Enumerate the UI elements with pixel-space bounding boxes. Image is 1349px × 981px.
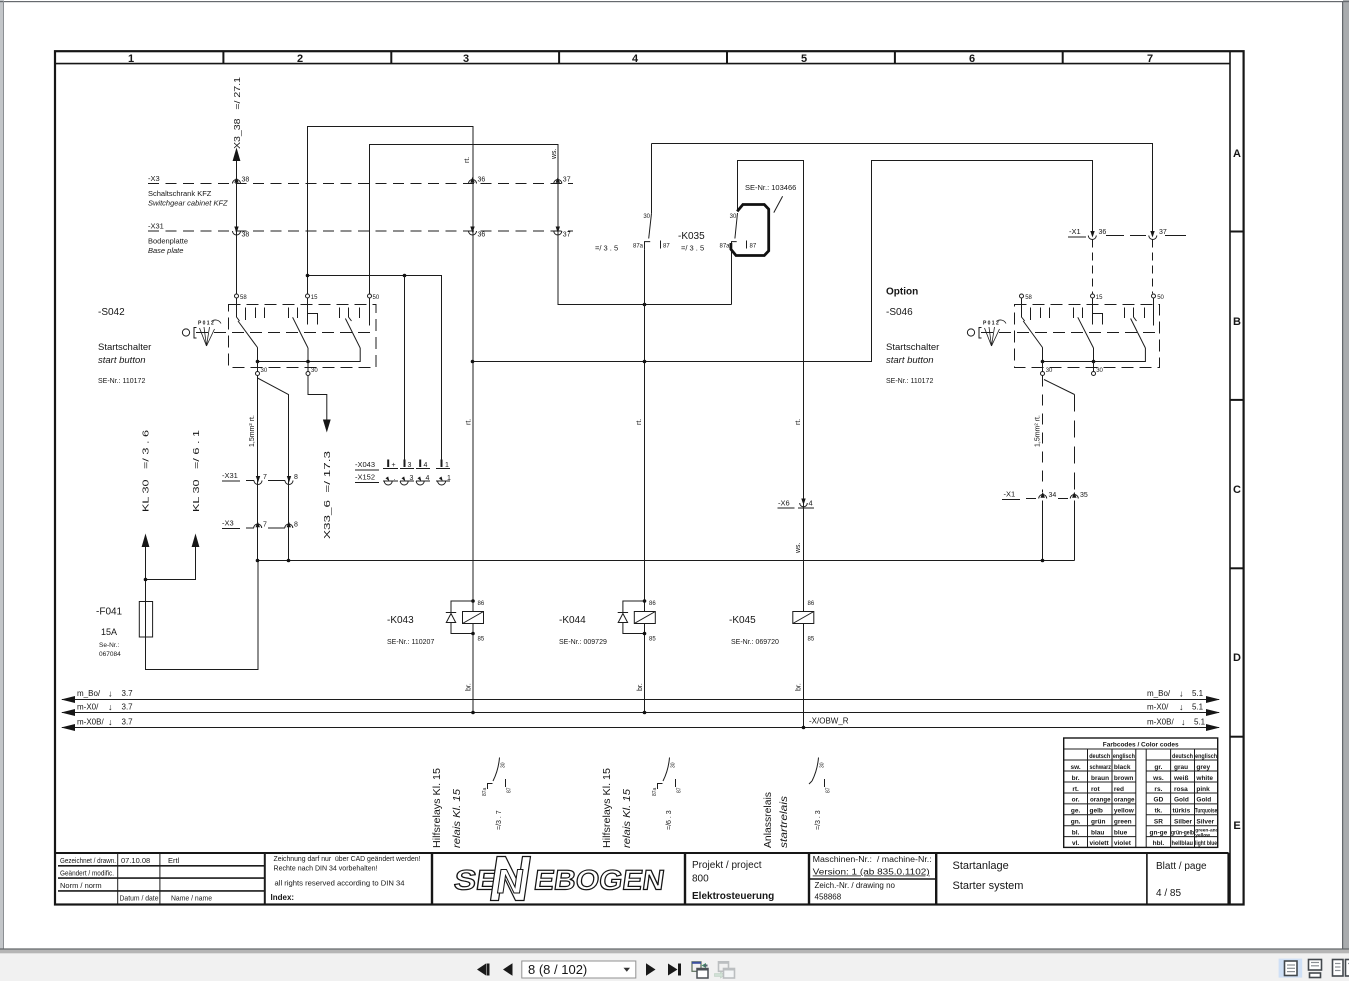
svg-text:↓: ↓ <box>108 689 113 699</box>
wire K045 to bus <box>803 599 805 612</box>
svg-text:7: 7 <box>263 522 267 529</box>
view facing button <box>1333 960 1349 977</box>
wire -X3:37 to -X31:37 <box>557 184 559 232</box>
svg-text:brown: brown <box>1114 775 1134 782</box>
svg-text:ws.: ws. <box>551 148 558 160</box>
terminal strip -X31 lower <box>222 471 298 485</box>
svg-text:↓: ↓ <box>1181 717 1186 727</box>
svg-text:Silver: Silver <box>1196 819 1214 826</box>
svg-text:Norm / norm: Norm / norm <box>60 881 102 890</box>
svg-text:br.: br. <box>796 683 803 691</box>
viewer gray strip below page <box>0 950 1349 954</box>
svg-text:start button: start button <box>886 355 934 366</box>
svg-text:C: C <box>1233 484 1241 496</box>
svg-text:Index:: Index: <box>271 893 295 902</box>
S042 output 30b <box>306 362 318 376</box>
svg-text:Option: Option <box>886 287 918 298</box>
svg-text:Ertl: Ertl <box>168 856 180 865</box>
svg-text:SE-Nr.: 110172: SE-Nr.: 110172 <box>98 378 145 385</box>
starter relay contact 3.3 <box>809 758 832 831</box>
S046 terminal 50 <box>1152 294 1165 301</box>
junction K035 rail / K044 <box>643 303 647 307</box>
wire F041 to start rail <box>146 561 259 670</box>
row tick C|D <box>1230 567 1244 569</box>
terminal strip -X043 <box>355 460 450 471</box>
svg-text:m-X0B/: m-X0B/ <box>1147 718 1174 727</box>
wire -X1:34 to start rail <box>1042 501 1044 561</box>
svg-text:87a: 87a <box>482 787 488 796</box>
svg-text:SE-Nr.: 103466: SE-Nr.: 103466 <box>745 183 796 192</box>
svg-text:braun: braun <box>1091 775 1109 782</box>
terminal -X31:37 <box>554 227 571 239</box>
S042 labels <box>98 307 151 385</box>
svg-text:15: 15 <box>311 295 318 301</box>
terminal -X3:38 <box>233 177 250 184</box>
title block row labels <box>60 856 212 903</box>
auxiliary relay contact 3.7 <box>482 758 513 831</box>
S046 output rail <box>1043 348 1146 362</box>
contact K035/1 blade <box>649 213 652 238</box>
S042 actuator dashed line <box>196 332 376 334</box>
svg-text:1,5mm² rt.: 1,5mm² rt. <box>249 415 256 447</box>
svg-text:5.1: 5.1 <box>1192 689 1204 698</box>
svg-text:Zeich.-Nr. / drawing no: Zeich.-Nr. / drawing no <box>815 881 896 890</box>
wire K044 to bus <box>643 711 647 715</box>
S046 pole3 <box>1125 298 1154 348</box>
svg-text:ws.: ws. <box>1152 775 1164 782</box>
svg-text:↓: ↓ <box>108 702 113 712</box>
svg-text:grau: grau <box>1174 764 1188 771</box>
svg-text:m-X0B/: m-X0B/ <box>77 718 104 727</box>
S042 pole1 <box>237 298 265 348</box>
svg-text:7: 7 <box>263 474 267 481</box>
wire S042:50 feed <box>370 145 559 295</box>
svg-text:87a: 87a <box>633 244 644 250</box>
logo cell borders <box>432 853 685 904</box>
svg-text:grey: grey <box>1196 764 1210 771</box>
svg-text:SR: SR <box>1154 819 1163 826</box>
S042 key symbol <box>182 320 221 346</box>
svg-text:-X3: -X3 <box>222 519 234 528</box>
svg-text:violett: violett <box>1090 840 1110 847</box>
right sub table <box>1146 749 1218 847</box>
svg-text:KL 30 =/ 3 . 6: KL 30 =/ 3 . 6 <box>141 430 151 512</box>
wire X043 feed rail <box>308 276 442 460</box>
S042 terminal 15 <box>306 294 319 301</box>
svg-text:30: 30 <box>643 214 650 220</box>
svg-text:-X6: -X6 <box>778 499 790 508</box>
svg-text:deutsch: deutsch <box>1089 753 1110 760</box>
svg-text:Startanlage: Startanlage <box>953 860 1009 872</box>
svg-text:1,5mm² rt.: 1,5mm² rt. <box>1035 415 1042 447</box>
svg-text:Zeichnung darf nur über CAD g: Zeichnung darf nur über CAD geändert wer… <box>274 854 421 863</box>
svg-text:pink: pink <box>1196 786 1210 793</box>
svg-text:Silber: Silber <box>1174 819 1193 826</box>
svg-text:6: 6 <box>969 53 975 65</box>
svg-text:-X/OBW_R: -X/OBW_R <box>809 717 849 726</box>
drawing title cell <box>953 860 1024 892</box>
S046 terminal 58 <box>1020 294 1033 301</box>
svg-text:rt.: rt. <box>636 419 643 425</box>
color code table <box>1064 738 1219 847</box>
svg-text:2: 2 <box>297 53 303 65</box>
svg-text:30: 30 <box>730 214 737 220</box>
S046 pole2 <box>1074 298 1103 348</box>
terminal -X3:36 <box>469 177 486 184</box>
S046 labels <box>886 287 939 386</box>
terminal strip -X31 label <box>148 222 188 256</box>
svg-text:vl.: vl. <box>1072 840 1079 847</box>
svg-text:m_Bo/: m_Bo/ <box>77 689 101 698</box>
toolbar previous button <box>503 963 513 976</box>
junction start rail / out1 <box>256 559 260 563</box>
svg-text:3: 3 <box>410 475 414 482</box>
junction start rail / 8 wire <box>287 559 291 563</box>
svg-text:Geändert / modific.: Geändert / modific. <box>60 868 114 877</box>
relay contact -K035 <box>595 144 796 256</box>
svg-text:grün-gelb: grün-gelb <box>1171 829 1194 836</box>
toolbar background <box>0 953 1349 981</box>
wire K043 to bus <box>471 711 475 715</box>
svg-text:87: 87 <box>750 244 757 250</box>
node KL30 arrow 2 <box>146 534 200 580</box>
terminal -X31:38 <box>233 227 250 239</box>
terminal strip -X152 <box>355 473 451 486</box>
S042 output 30a <box>256 362 268 376</box>
svg-text:+: + <box>392 462 396 469</box>
row tick B|C <box>1230 399 1244 401</box>
svg-text:50: 50 <box>1157 295 1164 301</box>
svg-text:orange: orange <box>1090 797 1111 804</box>
svg-text:30: 30 <box>1046 368 1053 374</box>
svg-text:Maschinen-Nr.: / machine-Nr.:: Maschinen-Nr.: / machine-Nr.: <box>813 855 932 864</box>
toolbar next button <box>646 963 656 976</box>
svg-text:SE-Nr.: 110207: SE-Nr.: 110207 <box>387 639 434 646</box>
contact K035/2 87 tick <box>746 241 748 249</box>
svg-text:Switchgear cabinet KFZ: Switchgear cabinet KFZ <box>148 199 228 208</box>
svg-text:↓: ↓ <box>1179 689 1184 699</box>
machine number cell <box>809 853 936 904</box>
svg-text:30: 30 <box>820 762 826 768</box>
column tick 6|7 <box>1062 51 1064 64</box>
svg-text:38: 38 <box>242 177 250 184</box>
wire K043 drop <box>472 184 474 600</box>
svg-text:86: 86 <box>808 601 815 607</box>
title block DIN notice <box>271 854 421 902</box>
wire top rail to -X1:37 <box>652 144 1153 236</box>
svg-text:br.: br. <box>1072 775 1080 782</box>
svg-text:4 / 85: 4 / 85 <box>1156 888 1181 899</box>
svg-text:85: 85 <box>649 637 656 643</box>
svg-text:KL 30 =/ 6 . 1: KL 30 =/ 6 . 1 <box>191 430 201 512</box>
S042 pole2 <box>289 298 318 348</box>
terminal -X6:4 <box>778 499 815 509</box>
relay coil -K045 <box>729 601 815 646</box>
svg-text:3.7: 3.7 <box>122 703 134 712</box>
svg-text:-X152: -X152 <box>355 473 375 482</box>
svg-text:m-X0/: m-X0/ <box>1147 703 1169 712</box>
terminal strip -X3 lower <box>222 519 298 529</box>
svg-text:Hilfsrelays Kl. 15: Hilfsrelays Kl. 15 <box>432 768 443 848</box>
wire -X1:35 to start rail <box>1074 501 1076 561</box>
svg-text:rs.: rs. <box>1154 786 1162 793</box>
viewer gray left strip <box>0 0 4 949</box>
viewer gray right strip <box>1343 0 1349 949</box>
svg-text:-K044: -K044 <box>559 615 586 626</box>
svg-text:-X1: -X1 <box>1004 490 1016 499</box>
wire X33_6 arrow <box>308 376 331 433</box>
svg-text:Projekt / project: Projekt / project <box>692 860 762 871</box>
svg-text:Datum / date: Datum / date <box>120 894 159 903</box>
S046 key symbol <box>967 320 1006 346</box>
svg-text:gelb: gelb <box>1090 808 1103 815</box>
svg-text:-K045: -K045 <box>729 615 756 626</box>
page cell <box>1147 853 1207 904</box>
svg-text:3.7: 3.7 <box>122 718 134 727</box>
auxiliary relay contact 6.3 <box>652 758 683 831</box>
svg-text:5: 5 <box>801 53 807 65</box>
svg-text:bl.: bl. <box>1072 829 1080 836</box>
svg-text:relais Kl. 15: relais Kl. 15 <box>452 789 463 848</box>
svg-text:↓: ↓ <box>1179 702 1184 712</box>
fuse -F041 <box>96 602 153 659</box>
svg-text:-F041: -F041 <box>96 607 123 618</box>
svg-text:15: 15 <box>1096 295 1103 301</box>
svg-text:-X043: -X043 <box>355 460 375 469</box>
column tick 2|3 <box>390 51 392 64</box>
svg-text:red: red <box>1114 786 1124 793</box>
svg-text:SE-Nr.: 110172: SE-Nr.: 110172 <box>886 378 933 385</box>
svg-text:deutsch: deutsch <box>1172 753 1193 760</box>
svg-text:E: E <box>1233 820 1240 832</box>
svg-text:türkis: türkis <box>1173 808 1191 815</box>
svg-text:englisch: englisch <box>1113 753 1135 760</box>
svg-text:Name / name: Name / name <box>171 894 212 903</box>
svg-text:rt.: rt. <box>466 419 473 425</box>
bus m-X0B <box>61 717 1220 731</box>
svg-text:8: 8 <box>294 522 298 529</box>
svg-text:3.7: 3.7 <box>122 689 134 698</box>
bus m_Bo <box>61 689 1220 704</box>
svg-text:58: 58 <box>1025 295 1032 301</box>
svg-text:grün: grün <box>1091 819 1105 826</box>
svg-text:yellow: yellow <box>1195 832 1210 838</box>
svg-text:light blue: light blue <box>1195 840 1217 847</box>
svg-text:Version: 1 (ab 835.0.1102): Version: 1 (ab 835.0.1102) <box>813 868 930 877</box>
svg-text:35: 35 <box>1080 492 1088 499</box>
svg-text:br.: br. <box>637 683 644 691</box>
svg-text:4: 4 <box>426 475 430 482</box>
svg-text:8 (8 / 102): 8 (8 / 102) <box>528 962 587 977</box>
S042 output rail <box>258 348 361 362</box>
svg-text:4: 4 <box>809 499 813 508</box>
svg-text:36: 36 <box>478 232 486 239</box>
svg-text:87: 87 <box>677 787 683 793</box>
svg-text:87a: 87a <box>652 787 658 796</box>
svg-text:rot: rot <box>1091 786 1101 793</box>
svg-text:rt.: rt. <box>795 419 802 425</box>
svg-text:m-X0/: m-X0/ <box>77 703 99 712</box>
S046 output 30a <box>1041 362 1054 376</box>
row letter band left line <box>1229 51 1231 904</box>
viewer page bottom border <box>0 948 1349 949</box>
svg-text:36: 36 <box>1099 229 1107 236</box>
drawing frame outer border <box>55 51 1244 904</box>
column tick 3|4 <box>558 51 560 64</box>
svg-text:30: 30 <box>501 762 507 768</box>
svg-text:gr.: gr. <box>1154 764 1162 771</box>
svg-text:A: A <box>1233 148 1241 160</box>
S046 enclosure dashed <box>1015 305 1160 368</box>
svg-text:=/3 . 7: =/3 . 7 <box>496 810 503 830</box>
svg-text:85: 85 <box>808 637 815 643</box>
terminal strip -X3 dashed line <box>148 183 573 185</box>
svg-text:sw.: sw. <box>1070 764 1080 771</box>
svg-text:Hilfsrelays Kl. 15: Hilfsrelays Kl. 15 <box>602 768 613 848</box>
svg-text:34: 34 <box>1049 492 1057 499</box>
relay coil -K043 <box>387 599 485 713</box>
svg-text:4: 4 <box>424 462 428 469</box>
terminal strip -X3 label <box>148 174 228 208</box>
S046 output 30b <box>1092 362 1104 376</box>
svg-text:=/ 3 . 5: =/ 3 . 5 <box>681 244 704 253</box>
svg-text:30: 30 <box>311 368 318 374</box>
svg-text:Turquoise: Turquoise <box>1195 808 1218 815</box>
svg-text:30: 30 <box>261 368 268 374</box>
svg-text:X3_38 =/ 27.1: X3_38 =/ 27.1 <box>232 77 242 149</box>
wire K035/2 top to K045 <box>738 161 804 600</box>
svg-text:SE-Nr.: 069720: SE-Nr.: 069720 <box>731 639 779 646</box>
svg-text:87a: 87a <box>719 244 730 250</box>
svg-text:ge.: ge. <box>1071 808 1081 815</box>
toolbar window-forward icon disabled <box>715 962 735 978</box>
svg-text:-S046: -S046 <box>886 307 913 318</box>
svg-text:violet: violet <box>1114 840 1132 847</box>
svg-text:all rights reserved according: all rights reserved according to DIN 34 <box>275 879 405 888</box>
table text <box>1070 753 1218 847</box>
svg-text:7: 7 <box>1147 53 1153 65</box>
wire start rail riser <box>473 161 1093 362</box>
wire K035/1 to K044 <box>644 249 646 599</box>
svg-text:rosa: rosa <box>1174 786 1188 793</box>
title block border <box>56 853 1229 905</box>
svg-text:87: 87 <box>507 787 513 793</box>
svg-text:schwarz: schwarz <box>1090 764 1112 771</box>
left sub table <box>1064 749 1136 847</box>
svg-text:br.: br. <box>466 683 473 691</box>
svg-text:gn-ge: gn-ge <box>1150 829 1168 836</box>
column header band bottom line <box>55 63 1230 65</box>
K035 SE-Nr callout line <box>774 196 783 212</box>
column tick 4|5 <box>726 51 728 64</box>
svg-text:blue: blue <box>1114 829 1128 836</box>
row tick A|B <box>1230 231 1244 233</box>
SENNEBOGEN logo <box>452 857 666 901</box>
svg-text:Startschalter: Startschalter <box>886 342 939 353</box>
svg-text:5.1: 5.1 <box>1192 703 1204 712</box>
svg-text:4: 4 <box>632 53 639 65</box>
S042 terminal 58 <box>235 294 248 301</box>
svg-text:↓: ↓ <box>108 717 113 727</box>
svg-text:-X1: -X1 <box>1069 227 1081 236</box>
contact K035/1 87 tick <box>660 241 662 249</box>
svg-text:07.10.08: 07.10.08 <box>121 856 150 865</box>
svg-text:Bodenplatte: Bodenplatte <box>148 237 188 246</box>
svg-text:3: 3 <box>463 53 469 65</box>
S046 pole1 <box>1022 298 1050 348</box>
svg-text:Schaltschrank KFZ: Schaltschrank KFZ <box>148 189 212 198</box>
project cell <box>692 860 774 902</box>
svg-text:Farbcodes / Color codes: Farbcodes / Color codes <box>1103 742 1179 749</box>
S042 pole3 <box>340 298 370 348</box>
contact K035/2 blade <box>735 213 738 239</box>
column tick 1|2 <box>222 51 224 64</box>
svg-text:yellow: yellow <box>1114 808 1135 815</box>
svg-text:-X31: -X31 <box>222 471 238 480</box>
wire S046 out1 branch dashed <box>1044 380 1075 493</box>
toolbar window-back icon <box>692 962 708 978</box>
svg-text:hellblau: hellblau <box>1172 840 1194 847</box>
wire -X1:36 dashed to S046:15 <box>1092 240 1094 294</box>
S042 terminal 50 <box>368 294 380 301</box>
svg-text:rt.: rt. <box>464 157 471 163</box>
svg-text:Gold: Gold <box>1174 797 1189 804</box>
svg-text:38: 38 <box>242 232 250 239</box>
svg-text:startrelais: startrelais <box>779 796 790 848</box>
svg-text:58: 58 <box>240 295 247 301</box>
relay coil -K044 <box>559 599 656 713</box>
wire K035 87a-2 up <box>731 249 733 304</box>
terminal strip -X31 dashed line <box>148 230 573 232</box>
terminal -X3:37 <box>554 177 571 184</box>
svg-text:Anlassrelais: Anlassrelais <box>763 792 774 848</box>
S046 terminal 15 <box>1091 294 1104 301</box>
svg-text:50: 50 <box>373 295 380 301</box>
svg-text:D: D <box>1233 652 1241 664</box>
svg-text:Starter system: Starter system <box>953 880 1024 892</box>
svg-text:3: 3 <box>408 462 412 469</box>
svg-text:ws.: ws. <box>795 542 802 554</box>
junction start rail / K044 <box>643 360 647 364</box>
svg-text:458868: 458868 <box>815 893 842 902</box>
terminal -X31:36 <box>469 227 486 239</box>
svg-text:8: 8 <box>294 474 298 481</box>
svg-text:black: black <box>1114 764 1131 771</box>
svg-text:P 0 1 2: P 0 1 2 <box>983 321 999 327</box>
svg-text:-K043: -K043 <box>387 615 414 626</box>
svg-text:.: . <box>394 475 396 482</box>
svg-text:green: green <box>1114 819 1132 826</box>
svg-text:36: 36 <box>478 177 486 184</box>
start rail horizontal <box>258 560 1075 562</box>
svg-text:87: 87 <box>826 787 832 793</box>
K035 emphasis outline <box>731 205 769 256</box>
contact K035/2 input 30 <box>737 161 739 212</box>
svg-text:-X31: -X31 <box>148 222 164 231</box>
svg-text:1: 1 <box>445 462 449 469</box>
svg-text:hbl.: hbl. <box>1153 840 1165 847</box>
svg-text:85: 85 <box>478 637 485 643</box>
svg-text:37: 37 <box>1159 229 1167 236</box>
S042 enclosure dashed <box>229 305 377 368</box>
toolbar page combobox <box>522 961 636 978</box>
svg-text:1: 1 <box>128 53 134 65</box>
wire 37 to K035 rail <box>558 231 732 305</box>
svg-text:=/ 3 . 5: =/ 3 . 5 <box>595 244 618 253</box>
svg-text:GD: GD <box>1154 797 1164 804</box>
svg-text:86: 86 <box>478 601 485 607</box>
svg-text:-K035: -K035 <box>678 231 705 242</box>
